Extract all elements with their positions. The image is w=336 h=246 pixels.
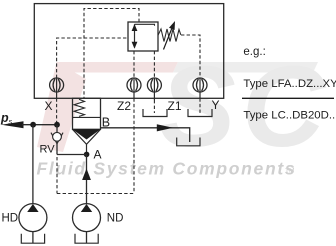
label p_s xyxy=(0,111,13,126)
note type LC xyxy=(243,110,336,122)
manifold block (cover outline) xyxy=(34,4,223,99)
wire P line xyxy=(22,124,57,126)
wire RV branch vertical xyxy=(56,125,58,155)
check valve RV xyxy=(51,132,63,143)
pilot line from relief valve top to cartridge spring chamber xyxy=(84,9,139,99)
manifold boundary dashed bottom xyxy=(57,193,134,195)
svg-text:RV: RV xyxy=(40,143,56,155)
label A xyxy=(94,148,102,162)
flow arrow on B line xyxy=(157,124,173,131)
note type LFA xyxy=(243,78,336,90)
tank symbol B drain xyxy=(177,138,200,146)
label Z2 xyxy=(117,99,131,113)
pilot line X up from port to relief valve xyxy=(57,38,128,78)
svg-text:Z2: Z2 xyxy=(117,99,131,113)
port Y xyxy=(193,78,207,98)
svg-text:Type LC..DB20D...: Type LC..DB20D... xyxy=(243,110,336,122)
svg-text:Type LFA..DZ...XY: Type LFA..DZ...XY xyxy=(243,78,336,90)
pilot line X port down to node xyxy=(56,98,58,122)
manifold boundary dashed left xyxy=(56,157,58,194)
svg-text:ND: ND xyxy=(107,213,124,225)
port X xyxy=(50,78,64,98)
svg-text:SC: SC xyxy=(159,43,331,171)
relief valve spring xyxy=(158,29,181,42)
svg-text:Z1: Z1 xyxy=(168,99,182,113)
manifold boundary dashed Z2 down / right edge xyxy=(133,98,135,193)
tank symbol under pump HD xyxy=(21,234,44,243)
svg-text:Fluid System Components: Fluid System Components xyxy=(37,159,297,179)
label HD xyxy=(2,213,19,225)
label X xyxy=(45,99,53,113)
pump HD xyxy=(19,204,47,243)
svg-text:A: A xyxy=(94,148,102,162)
svg-text:HD: HD xyxy=(2,213,19,225)
wire ND pump riser xyxy=(86,155,88,204)
pump ND xyxy=(73,204,101,243)
node A xyxy=(84,152,90,158)
svg-text:Y: Y xyxy=(212,98,220,112)
tank symbol under Y xyxy=(188,109,212,117)
cartridge spring xyxy=(74,99,85,116)
separator line xyxy=(242,97,334,99)
pilot line relief valve bottom to port Z1 xyxy=(153,51,155,78)
svg-text:TM: TM xyxy=(285,168,294,175)
pilot line relief valve bottom to port Z2 xyxy=(133,51,135,78)
label Y xyxy=(212,98,220,112)
wire HD pump riser xyxy=(32,125,34,204)
port Z2 xyxy=(127,78,141,98)
tank symbol under Z1 xyxy=(143,109,167,117)
system arrow P xyxy=(2,121,24,128)
cartridge poppet xyxy=(73,129,101,152)
pilot line spring side to port Y xyxy=(181,35,200,78)
wire A line horizontal xyxy=(57,154,87,156)
flow arrow on ND riser xyxy=(82,169,91,181)
port Z1 xyxy=(147,78,161,100)
drain line Z1 to tank xyxy=(153,100,155,113)
pilot relief valve DB xyxy=(128,22,158,51)
logic cartridge valve body xyxy=(73,98,101,129)
drain line Y to tank xyxy=(199,98,201,113)
note e.g. xyxy=(243,46,265,58)
wire B line to tank xyxy=(101,128,190,142)
label RV xyxy=(40,143,56,155)
label B xyxy=(102,115,110,129)
tank symbol under pump ND xyxy=(75,234,98,243)
label ND xyxy=(107,213,124,225)
label Z1 xyxy=(168,99,182,113)
relief valve adjustment arrow xyxy=(164,21,176,50)
node X junction xyxy=(54,122,60,128)
svg-text:X: X xyxy=(45,99,53,113)
node HD junction xyxy=(30,122,36,128)
svg-text:e.g.:: e.g.: xyxy=(243,46,265,58)
